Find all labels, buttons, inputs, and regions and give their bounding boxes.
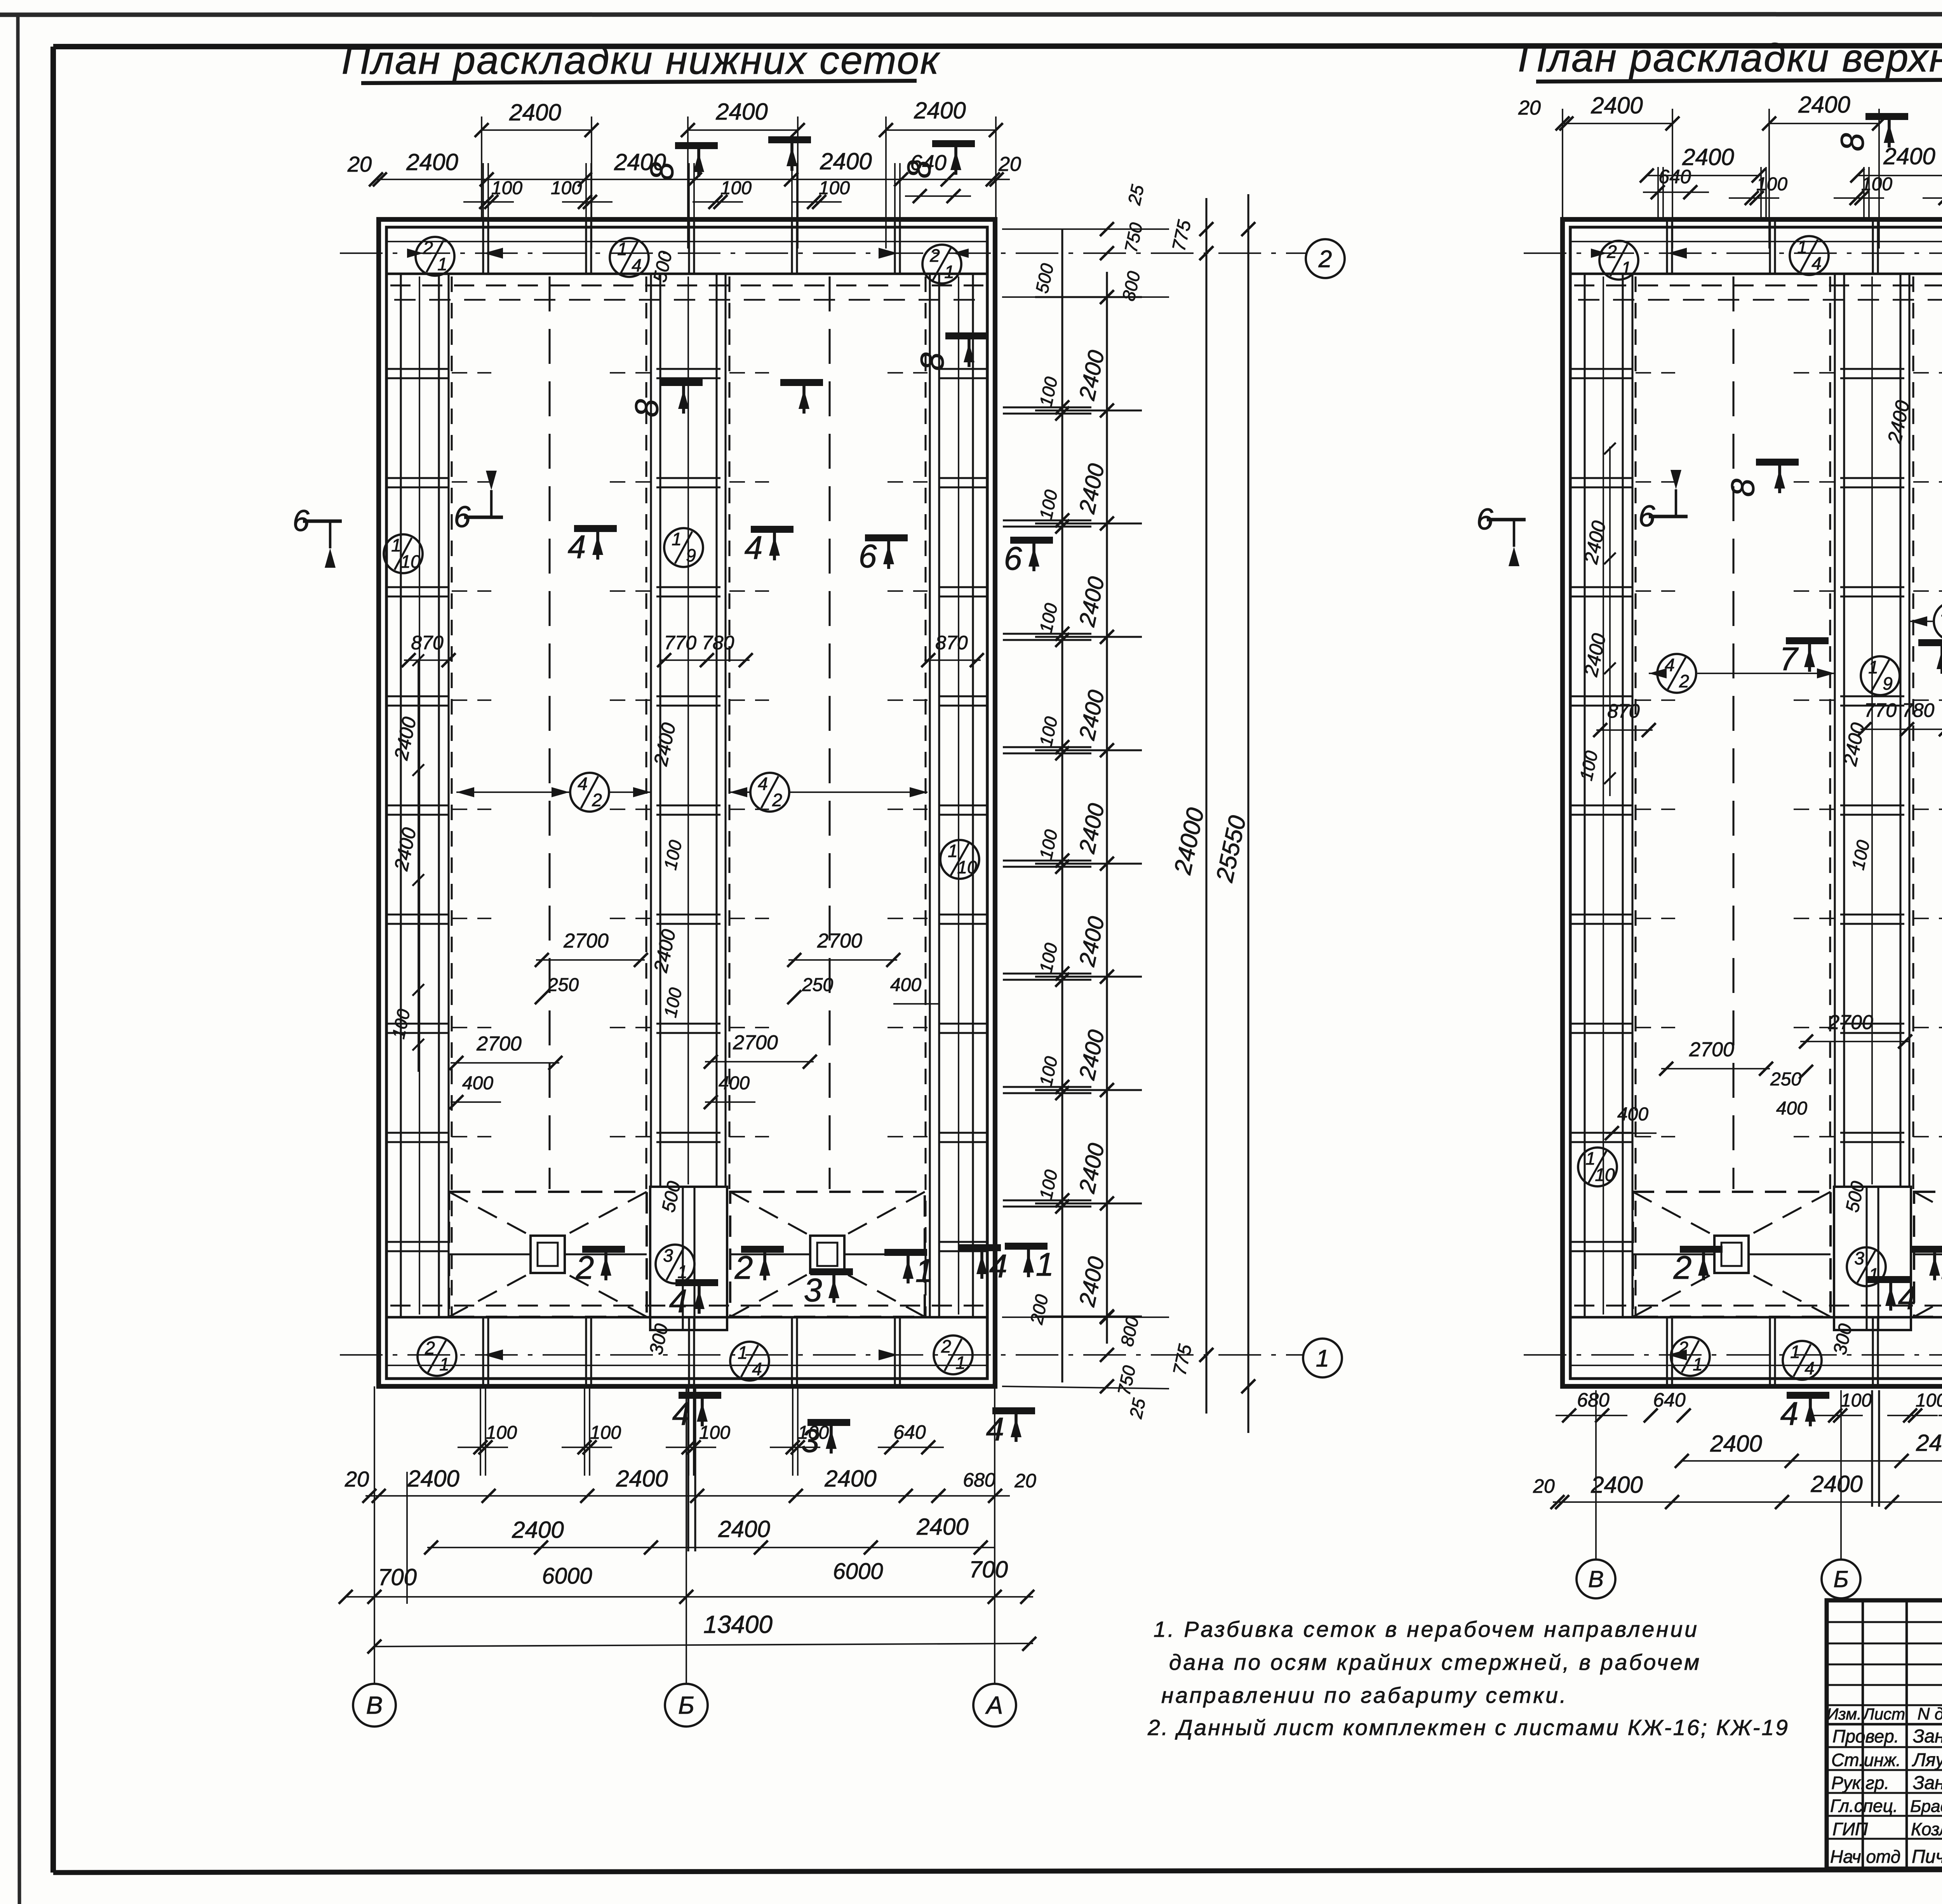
section mark 1 outside bottom xyxy=(1005,1243,1048,1250)
svg-text:2400: 2400 xyxy=(1916,1430,1942,1456)
svg-text:640: 640 xyxy=(893,1421,926,1443)
svg-text:25: 25 xyxy=(1124,183,1148,207)
svg-text:8: 8 xyxy=(1724,478,1761,497)
bottom band dashed slab edge xyxy=(390,1304,983,1306)
svg-text:2: 2 xyxy=(1678,1338,1688,1358)
mesh mark 2/1 bottom-left R xyxy=(1671,1337,1710,1376)
bottom band joint ticks xyxy=(585,1317,587,1386)
svg-text:1: 1 xyxy=(672,529,682,549)
svg-text:20: 20 xyxy=(1518,97,1541,119)
svg-text:2. Данный лист комплектен с: 2. Данный лист комплектен с листами КЖ-1… xyxy=(1147,1715,1789,1740)
mesh mark 1/4 bottom-center R xyxy=(1783,1341,1822,1380)
svg-text:100: 100 xyxy=(590,1422,621,1443)
svg-text:2400: 2400 xyxy=(512,1517,564,1543)
svg-text:2400: 2400 xyxy=(1710,1431,1762,1457)
svg-text:2400: 2400 xyxy=(614,149,666,175)
sludge pit hopper dashed outline xyxy=(449,1192,647,1317)
svg-text:3: 3 xyxy=(1854,1248,1864,1268)
chain tick 2400 boundary xyxy=(1035,1315,1142,1317)
svg-text:2700: 2700 xyxy=(563,930,609,952)
dims above right plan row2 xyxy=(1647,175,1759,176)
axis bubble В right plan xyxy=(1577,1560,1615,1598)
top band dashed slab edge xyxy=(1574,284,1942,286)
top band inner thin line xyxy=(1570,241,1942,242)
bottom band joint ticks xyxy=(482,1317,484,1386)
svg-text:10: 10 xyxy=(1595,1165,1615,1185)
svg-text:400: 400 xyxy=(1776,1098,1807,1119)
section mark 7 mid R xyxy=(1786,637,1829,644)
section mark 2 hopper xyxy=(582,1246,625,1253)
mesh overlap dashes xyxy=(1636,372,1675,374)
svg-text:1: 1 xyxy=(437,254,447,274)
center strip extension below right plan xyxy=(1871,1390,1873,1507)
mesh overlap dashes xyxy=(452,372,491,374)
section mark 4 mid-right xyxy=(751,526,794,533)
ladder center thin lines xyxy=(419,276,420,1315)
mesh mark 2/1 top-right xyxy=(922,245,961,283)
svg-text:4: 4 xyxy=(669,1283,687,1319)
svg-text:20: 20 xyxy=(1533,1475,1555,1497)
svg-text:4: 4 xyxy=(578,774,588,794)
svg-text:А: А xyxy=(985,1691,1003,1719)
svg-text:20: 20 xyxy=(345,1467,369,1491)
axis bubble Б right plan xyxy=(1822,1560,1860,1598)
svg-text:2: 2 xyxy=(592,790,602,810)
svg-text:870: 870 xyxy=(1607,700,1640,722)
svg-text:1: 1 xyxy=(955,1353,966,1373)
svg-text:6: 6 xyxy=(454,499,471,534)
section mark 6 cut left xyxy=(303,520,342,523)
chain 100 tick pair xyxy=(1003,406,1091,408)
span arrows 4/2 R xyxy=(1649,668,1667,678)
svg-text:100: 100 xyxy=(1916,1390,1942,1411)
bottom wall band line xyxy=(1570,1316,1942,1318)
precast slab strip rails xyxy=(1834,274,1836,1187)
svg-text:2400: 2400 xyxy=(718,1516,770,1542)
section mark 4 below 3/1 xyxy=(675,1279,718,1286)
svg-text:1: 1 xyxy=(1693,1354,1703,1374)
section mark 8 in top band xyxy=(660,379,703,386)
svg-text:4: 4 xyxy=(1805,1358,1815,1378)
section mark 8 right edge xyxy=(945,332,988,339)
bottom band leader arrows xyxy=(1667,1349,1687,1360)
svg-text:2400: 2400 xyxy=(509,99,561,125)
dim row 2400 top third xyxy=(886,129,996,131)
svg-text:Зантберг: Зантберг xyxy=(1913,1773,1942,1793)
bottom band leader arrows xyxy=(484,1349,503,1360)
mesh mark 2/1 top-left xyxy=(416,237,454,276)
section mark above plan xyxy=(768,136,811,143)
svg-text:8: 8 xyxy=(1834,133,1871,151)
section mark 8 above plan R xyxy=(1865,113,1908,120)
axis verticals to bubbles R xyxy=(1595,1390,1597,1560)
svg-text:100: 100 xyxy=(1861,174,1892,195)
svg-text:дана по осям крайних стерж: дана по осям крайних стержней, в рабочем xyxy=(1169,1650,1701,1675)
svg-text:1: 1 xyxy=(1316,1345,1329,1372)
top wall band line xyxy=(386,273,988,275)
svg-text:1: 1 xyxy=(915,1252,934,1289)
chain tick 2400 boundary xyxy=(1035,1089,1142,1091)
svg-text:870: 870 xyxy=(411,632,444,654)
svg-text:2: 2 xyxy=(941,1336,951,1356)
extension lines top R xyxy=(1657,167,1659,219)
svg-text:2400: 2400 xyxy=(406,149,458,175)
bay dashed centerlines and edges xyxy=(451,276,452,1317)
svg-text:В: В xyxy=(366,1691,383,1719)
mesh mark 1/10 left-low R xyxy=(1578,1148,1617,1186)
svg-text:6000: 6000 xyxy=(833,1559,883,1584)
hopper mid lines xyxy=(730,1253,810,1255)
mesh mark 4/2 mid R xyxy=(1934,602,1942,641)
top band leader arrows xyxy=(484,248,503,259)
mesh mark 3/1 bottom R xyxy=(1847,1247,1886,1286)
dim row 2400 top first xyxy=(482,129,592,131)
svg-text:1: 1 xyxy=(948,841,958,861)
svg-text:2: 2 xyxy=(1673,1249,1692,1286)
section mark 4 below plan R xyxy=(1787,1392,1829,1399)
mesh mark 2/1 top-left R xyxy=(1599,241,1638,280)
svg-text:2400: 2400 xyxy=(1590,1472,1643,1498)
svg-text:680: 680 xyxy=(1577,1389,1610,1411)
svg-text:2: 2 xyxy=(929,245,940,266)
svg-text:3: 3 xyxy=(663,1245,673,1266)
plan outer wall outline xyxy=(379,219,995,1386)
svg-text:2400: 2400 xyxy=(715,99,767,125)
hopper opening inner square xyxy=(817,1243,837,1266)
svg-text:Нач.отд: Нач.отд xyxy=(1830,1847,1900,1867)
slab strip rungs xyxy=(1840,368,1904,370)
below right plan row3 xyxy=(1553,1501,1942,1503)
chain tick 2400 boundary xyxy=(1035,522,1142,524)
svg-text:4: 4 xyxy=(632,255,642,275)
title underline xyxy=(361,81,917,83)
mesh mark 2/1 bottom-right xyxy=(934,1335,973,1374)
bottom band inner thin line xyxy=(386,1365,987,1366)
sheet border frame xyxy=(53,45,1942,47)
svg-text:2700: 2700 xyxy=(1689,1038,1734,1061)
top band joint ticks xyxy=(585,219,587,274)
mesh mark 1/4 top-center R xyxy=(1790,236,1829,275)
total 24000 line xyxy=(1205,198,1207,1414)
chain tick 2400 boundary xyxy=(1035,409,1142,411)
section mark 8 top band R xyxy=(1756,459,1799,466)
section mark 8 above plan right xyxy=(932,140,975,147)
svg-text:2400: 2400 xyxy=(407,1466,459,1492)
svg-text:2400: 2400 xyxy=(616,1466,668,1492)
extension lines top xyxy=(482,163,484,219)
svg-text:1: 1 xyxy=(738,1342,748,1363)
svg-text:870: 870 xyxy=(935,632,968,654)
svg-text:2: 2 xyxy=(576,1249,594,1286)
mesh overlap dashes xyxy=(452,590,491,592)
svg-text:10: 10 xyxy=(400,551,421,572)
svg-text:400: 400 xyxy=(462,1073,493,1094)
mesh overlap dashes xyxy=(452,481,491,483)
bay dashed centerlines and edges xyxy=(1634,276,1636,1317)
mesh mark 4/2 right xyxy=(750,773,789,812)
mesh overlap dashes xyxy=(1636,699,1675,701)
hopper slope diagonals xyxy=(1914,1192,1942,1236)
hopper mid lines xyxy=(1633,1253,1714,1255)
axis bubble В left plan xyxy=(353,1684,396,1727)
svg-text:2400: 2400 xyxy=(1590,92,1643,118)
top band joint ticks xyxy=(791,219,793,274)
svg-text:770 780: 770 780 xyxy=(1864,699,1935,721)
svg-text:ГИП: ГИП xyxy=(1832,1819,1868,1839)
top band joint ticks xyxy=(1872,219,1874,274)
chain 100 tick pair xyxy=(1003,519,1091,521)
top band joint ticks xyxy=(1769,219,1771,274)
top band leader arrows xyxy=(1667,248,1687,259)
chain tick 2400 boundary xyxy=(1035,1202,1142,1204)
precast slab strip rails xyxy=(400,274,402,1317)
svg-text:2400: 2400 xyxy=(1810,1471,1862,1497)
hopper mid lines xyxy=(449,1253,531,1255)
chain 100 tick pair xyxy=(1003,859,1091,861)
svg-text:6: 6 xyxy=(1476,502,1493,536)
svg-text:1: 1 xyxy=(1036,1246,1054,1283)
svg-text:700: 700 xyxy=(969,1556,1008,1582)
svg-text:2: 2 xyxy=(772,790,782,810)
section mark 4 outside bottom xyxy=(958,1244,1001,1251)
chain tick 2400 boundary xyxy=(1035,862,1142,864)
svg-text:700: 700 xyxy=(378,1564,417,1590)
svg-text:Козловская: Козловская xyxy=(1911,1819,1942,1839)
svg-text:13400: 13400 xyxy=(703,1610,773,1638)
svg-text:250: 250 xyxy=(1770,1069,1801,1090)
hopper opening inner square xyxy=(1721,1243,1742,1266)
left edge dim chain line xyxy=(418,660,419,1072)
top band joint ticks xyxy=(688,219,690,274)
axis bubble А left plan xyxy=(973,1684,1016,1727)
center strip extension below left plan xyxy=(687,1386,689,1551)
top band joint ticks xyxy=(1666,219,1668,274)
section mark 6 outside xyxy=(1010,537,1053,544)
svg-text:Браславский: Браславский xyxy=(1910,1797,1942,1816)
central channel strip between hoppers xyxy=(650,1187,727,1330)
svg-text:2: 2 xyxy=(1679,671,1689,691)
top band joint ticks xyxy=(894,219,896,274)
mesh mark 1/10 left xyxy=(384,534,423,573)
bottom band dashed slab edge xyxy=(1574,1304,1942,1306)
svg-text:4: 4 xyxy=(745,529,763,566)
svg-text:100: 100 xyxy=(720,178,752,198)
mesh mark 3/1 bottom xyxy=(656,1245,694,1283)
section mark 6 mid xyxy=(865,534,908,541)
svg-text:2400: 2400 xyxy=(820,148,872,174)
svg-text:4: 4 xyxy=(1898,1280,1916,1316)
sludge pit hopper dashed outline xyxy=(730,1192,925,1317)
precast slab strip rails xyxy=(929,274,931,1317)
svg-text:1: 1 xyxy=(1585,1148,1596,1168)
svg-text:2700: 2700 xyxy=(476,1033,522,1055)
total 25550 line xyxy=(1247,194,1249,1433)
hopper bottom opening xyxy=(1714,1236,1749,1273)
section mark 4 below plan right xyxy=(992,1407,1035,1414)
mesh overlap dashes xyxy=(1636,1136,1675,1137)
below right plan row2 xyxy=(1682,1460,1942,1462)
svg-text:1: 1 xyxy=(391,535,401,555)
svg-text:Изм.: Изм. xyxy=(1827,1705,1862,1723)
title block row lines xyxy=(1827,1746,1942,1748)
svg-text:100: 100 xyxy=(491,178,522,198)
bottom band joint ticks xyxy=(1666,1317,1668,1386)
hopper mid lines xyxy=(1914,1253,1942,1255)
svg-text:2: 2 xyxy=(734,1249,753,1286)
bottom band centerline axis 1 xyxy=(340,1354,1304,1356)
below-plan row 700 6000 6000 700 xyxy=(346,1596,1033,1598)
section mark 3 hopper right xyxy=(810,1268,853,1275)
chain 100 tick pair xyxy=(1003,1086,1091,1088)
svg-text:400: 400 xyxy=(890,975,921,995)
title block left table verticals xyxy=(1862,1600,1864,1869)
svg-text:2: 2 xyxy=(1318,246,1332,273)
hopper bottom opening xyxy=(531,1236,565,1273)
svg-text:680: 680 xyxy=(963,1469,995,1491)
svg-text:1: 1 xyxy=(439,1354,449,1374)
sludge pit hopper dashed outline xyxy=(1633,1192,1831,1317)
mesh overlap dashes xyxy=(452,809,491,810)
section mark 6 cut left R xyxy=(1487,518,1526,522)
chain tick 2400 boundary xyxy=(1035,296,1142,298)
svg-text:3: 3 xyxy=(801,1422,820,1459)
section mark 7 mid2 R xyxy=(1918,639,1942,646)
mesh mark 1/10 right xyxy=(940,840,979,879)
plan inner wall line xyxy=(386,227,987,1379)
svg-text:1: 1 xyxy=(677,1262,687,1282)
svg-text:250: 250 xyxy=(802,975,833,995)
section mark 2 hopper right xyxy=(741,1246,784,1253)
title underline right xyxy=(1536,79,1942,82)
left edge dim chain line R xyxy=(1609,447,1611,796)
svg-text:100: 100 xyxy=(699,1422,730,1443)
svg-text:3: 3 xyxy=(804,1272,822,1308)
first dashed rung row xyxy=(394,299,980,301)
central channel strip between hoppers xyxy=(1834,1187,1911,1330)
dim row3 100 labels xyxy=(463,201,514,203)
top wall band line xyxy=(1570,273,1942,275)
mesh mark 1/4 top-center xyxy=(610,238,649,277)
chain col B line xyxy=(1106,272,1108,1344)
bottom band centerline axis 1 xyxy=(1524,1354,1942,1356)
svg-text:1: 1 xyxy=(1797,237,1807,257)
mesh overlap dashes xyxy=(452,1136,491,1137)
mesh mark 1/4 bottom-center xyxy=(730,1342,769,1381)
svg-text:20: 20 xyxy=(347,152,372,176)
bottom band joint ticks xyxy=(1872,1317,1874,1386)
dim row2 2400 spans xyxy=(376,179,487,180)
section mark 4 below plan xyxy=(679,1392,721,1399)
svg-text:640: 640 xyxy=(1653,1389,1686,1411)
bottom band joint ticks xyxy=(1769,1317,1771,1386)
section mark 1 hopper xyxy=(884,1249,927,1256)
svg-text:4: 4 xyxy=(1811,253,1822,273)
scan page top edge xyxy=(0,14,1942,15)
title block outer box xyxy=(1827,1600,1942,1869)
plan outer wall outline xyxy=(1563,219,1942,1386)
svg-text:2: 2 xyxy=(425,1338,435,1358)
svg-text:6: 6 xyxy=(1004,540,1022,577)
top band inner thin line xyxy=(386,241,987,242)
dim row3 640 ticks xyxy=(913,189,927,203)
axis verticals to bubbles xyxy=(374,1386,375,1684)
bottom wall band line xyxy=(386,1316,988,1318)
top band centerline axis 2 xyxy=(340,252,1306,254)
precast slab strip rails xyxy=(650,274,652,1187)
chain col A line xyxy=(1061,229,1063,1382)
section mark 6 cut xyxy=(464,516,503,519)
svg-text:6: 6 xyxy=(292,503,310,537)
svg-text:4: 4 xyxy=(568,529,586,565)
svg-text:7: 7 xyxy=(1780,641,1799,677)
below-plan total 13400 xyxy=(374,1643,1033,1647)
section mark 8 above plan xyxy=(675,142,718,149)
svg-text:9: 9 xyxy=(686,545,696,565)
section mark 4 mid hopper R xyxy=(1867,1276,1910,1283)
svg-text:Ляунзан: Ляунзан xyxy=(1912,1750,1942,1770)
span arrows 4/2 xyxy=(456,787,474,797)
slab strip rungs xyxy=(1571,368,1632,370)
svg-text:1: 1 xyxy=(1621,258,1631,278)
svg-text:1. Разбивка сеток в нерабоче: 1. Разбивка сеток в нерабочем направлени… xyxy=(1154,1617,1699,1642)
axis bubble 1 left plan xyxy=(1303,1339,1342,1377)
svg-text:6: 6 xyxy=(1638,499,1655,533)
title block revision rows xyxy=(1827,1621,1942,1623)
svg-text:1: 1 xyxy=(617,239,627,259)
bottom band joint ticks xyxy=(791,1317,793,1386)
chain tick 2400 boundary xyxy=(1035,975,1142,977)
mesh overlap dashes xyxy=(1636,918,1675,919)
svg-text:Рук.гр.: Рук.гр. xyxy=(1831,1773,1889,1793)
section mark 2 hopper R xyxy=(1680,1246,1723,1253)
below-plan row3 xyxy=(427,1547,994,1548)
svg-text:100: 100 xyxy=(551,178,582,198)
hopper bottom opening xyxy=(810,1236,844,1273)
svg-text:2: 2 xyxy=(1606,242,1617,262)
bottom band joint ticks xyxy=(688,1317,690,1386)
svg-text:Провер.: Провер. xyxy=(1832,1726,1899,1746)
top band dashed slab edge xyxy=(390,284,983,286)
chain tick 2400 boundary xyxy=(1035,636,1142,638)
mesh overlap dashes xyxy=(1636,481,1675,483)
svg-text:6: 6 xyxy=(859,538,877,574)
section mark 2 hopper2 R xyxy=(1911,1246,1942,1253)
sludge pit hopper dashed outline xyxy=(1914,1192,1942,1317)
svg-text:10: 10 xyxy=(957,857,977,877)
svg-text:1: 1 xyxy=(944,262,954,282)
top band joint ticks xyxy=(482,219,484,274)
chain bottom stub lines xyxy=(1002,1316,1169,1318)
svg-text:Зантберг: Зантберг xyxy=(1913,1726,1942,1747)
bottom band inner thin line xyxy=(1570,1365,1942,1366)
chain 100 tick pair xyxy=(1003,1199,1091,1201)
svg-text:2400: 2400 xyxy=(914,97,966,123)
chain top small ticks xyxy=(1100,222,1114,236)
mesh overlap dashes xyxy=(452,1027,491,1028)
svg-text:100: 100 xyxy=(486,1422,517,1443)
svg-text:Ст.инж.: Ст.инж. xyxy=(1831,1750,1901,1770)
top band centerline axis 2 xyxy=(1524,252,1942,254)
below-plan dim row 100s xyxy=(458,1447,508,1448)
mesh mark 2/1 bottom-left xyxy=(418,1337,456,1376)
svg-text:4: 4 xyxy=(758,774,768,794)
svg-text:Б: Б xyxy=(678,1691,694,1719)
svg-text:400: 400 xyxy=(1617,1104,1648,1125)
svg-text:2700: 2700 xyxy=(733,1031,778,1054)
svg-text:Б: Б xyxy=(1833,1566,1848,1592)
section mark in top band xyxy=(780,379,823,386)
chain 100 tick pair xyxy=(1003,746,1091,748)
